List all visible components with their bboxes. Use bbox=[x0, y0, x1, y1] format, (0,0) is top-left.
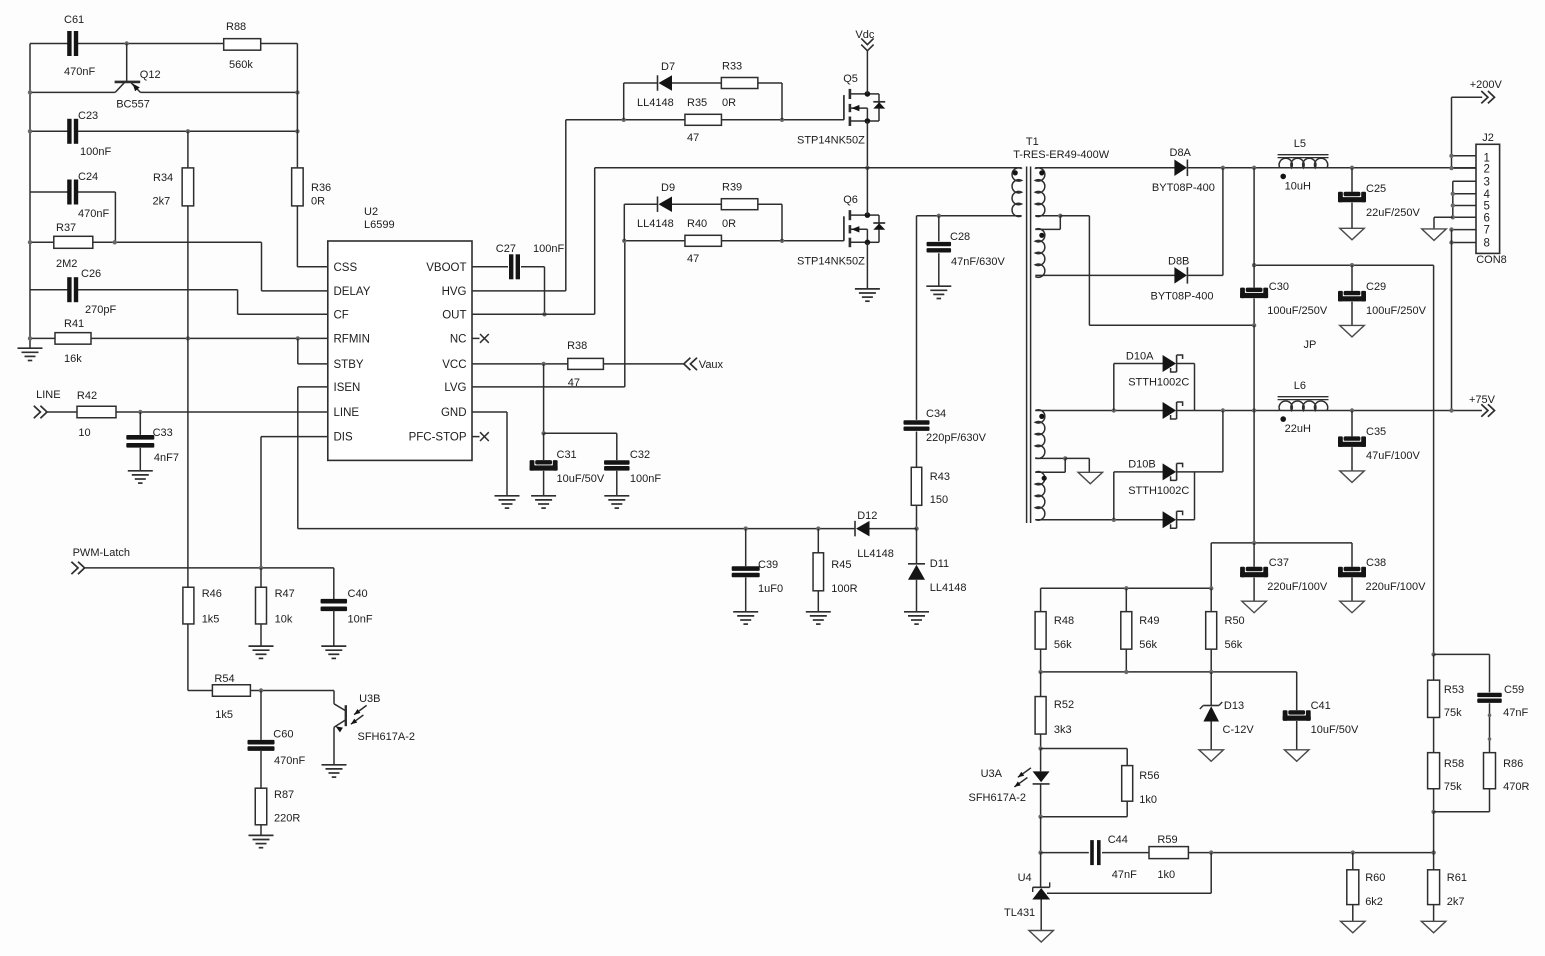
svg-text:Vaux: Vaux bbox=[699, 359, 724, 371]
svg-text:C33: C33 bbox=[153, 427, 173, 439]
resistor R60 6k2 bbox=[1352, 853, 1354, 870]
wire R34 vertical chain bbox=[187, 131, 189, 168]
wire Q6 gate line y240.8 bbox=[625, 240, 685, 242]
wire centre tap lower to ground bbox=[1065, 457, 1089, 459]
svg-text:VBOOT: VBOOT bbox=[426, 262, 466, 274]
ground C37 triangle bbox=[1242, 601, 1267, 613]
svg-text:U4: U4 bbox=[1018, 872, 1032, 884]
ground R47 bbox=[249, 645, 274, 647]
ground D11 bbox=[904, 611, 929, 613]
pin PFC-STOP stub with X bbox=[472, 436, 480, 438]
svg-text:10uF/50V: 10uF/50V bbox=[557, 473, 605, 485]
ground R45 bbox=[806, 611, 831, 613]
ground centre tap triangle bbox=[1078, 472, 1103, 484]
wire ISEN sense line y528.6 bbox=[298, 528, 746, 530]
resistor R56 1k0 bbox=[1041, 748, 1128, 750]
node y131 mid R34 bbox=[186, 129, 190, 133]
svg-text:C40: C40 bbox=[348, 588, 368, 600]
svg-text:VCC: VCC bbox=[442, 359, 466, 371]
resistor R38 bbox=[568, 358, 604, 369]
capacitor C26 bbox=[67, 277, 71, 302]
svg-text:0R: 0R bbox=[722, 97, 736, 109]
capacitor C23 bbox=[67, 119, 71, 144]
svg-text:R34: R34 bbox=[153, 172, 173, 184]
svg-text:R36: R36 bbox=[311, 182, 331, 194]
wire C37 rail y542.9 bbox=[1211, 542, 1352, 544]
node J2 pin6 bbox=[1451, 215, 1455, 219]
svg-text:STP14NK50Z: STP14NK50Z bbox=[797, 135, 865, 147]
svg-text:C-12V: C-12V bbox=[1223, 724, 1255, 736]
capacitor C40 10nF bbox=[321, 599, 348, 604]
resistor R42 bbox=[77, 406, 116, 418]
wire C41 branch bbox=[1296, 672, 1298, 710]
wire STBY branch bbox=[297, 338, 299, 364]
node D10A anode bbox=[1112, 408, 1116, 412]
capacitor C38 220uF/100V bbox=[1351, 543, 1353, 567]
svg-text:C32: C32 bbox=[630, 449, 650, 461]
svg-text:100R: 100R bbox=[831, 583, 857, 595]
svg-text:TL431: TL431 bbox=[1004, 907, 1035, 919]
svg-text:T1: T1 bbox=[1026, 136, 1039, 148]
capacitor C44 47nF bbox=[1041, 852, 1089, 854]
svg-text:Q12: Q12 bbox=[140, 69, 161, 81]
ground C31 bbox=[531, 495, 556, 497]
svg-text:75k: 75k bbox=[1444, 707, 1462, 719]
svg-text:47nF/630V: 47nF/630V bbox=[951, 256, 1005, 268]
svg-text:470R: 470R bbox=[1503, 781, 1529, 793]
node C33 junction bbox=[138, 410, 142, 414]
svg-text:C23: C23 bbox=[78, 110, 98, 122]
svg-text:4: 4 bbox=[1484, 189, 1491, 201]
svg-text:150: 150 bbox=[930, 494, 948, 506]
wire C24 rail y192 bbox=[30, 191, 68, 193]
svg-text:J2: J2 bbox=[1482, 132, 1494, 144]
svg-text:LINE: LINE bbox=[36, 389, 60, 401]
svg-text:56k: 56k bbox=[1139, 639, 1157, 651]
resistor R46 1k5 bbox=[183, 587, 194, 624]
svg-text:DELAY: DELAY bbox=[334, 286, 371, 298]
svg-text:C31: C31 bbox=[557, 449, 577, 461]
svg-text:47nF: 47nF bbox=[1112, 869, 1137, 881]
svg-text:NC: NC bbox=[450, 333, 467, 345]
resistor R48 56k bbox=[1040, 588, 1042, 612]
node R58/R86 bottom bbox=[1431, 810, 1435, 814]
svg-text:R40: R40 bbox=[687, 218, 707, 230]
svg-text:L5: L5 bbox=[1294, 138, 1306, 150]
capacitor C33 bbox=[139, 412, 141, 435]
svg-text:6: 6 bbox=[1484, 212, 1490, 224]
node y338 STBY branch bbox=[296, 336, 300, 340]
resistor R54 1k5 bbox=[188, 690, 213, 692]
wire sec4 bottom to D10B bbox=[1035, 519, 1163, 521]
wire D8A to output rail bbox=[1187, 167, 1279, 169]
wire sec3 bottom centre tap bbox=[1035, 457, 1065, 459]
node R52/U3A bbox=[1038, 746, 1042, 750]
svg-text:220uF/100V: 220uF/100V bbox=[1267, 581, 1328, 593]
node y338 R34 bbox=[186, 336, 190, 340]
svg-text:C60: C60 bbox=[273, 729, 293, 741]
node y338 left bbox=[28, 336, 32, 340]
svg-text:D8A: D8A bbox=[1170, 147, 1192, 159]
svg-text:U3B: U3B bbox=[359, 693, 380, 705]
svg-text:R46: R46 bbox=[202, 588, 222, 600]
transformer T1 core bbox=[1026, 167, 1028, 524]
svg-text:C38: C38 bbox=[1366, 557, 1386, 569]
svg-text:470nF: 470nF bbox=[274, 755, 305, 767]
svg-text:8: 8 bbox=[1484, 238, 1490, 250]
node y242 left bbox=[28, 240, 32, 244]
resistor R35 bbox=[685, 114, 722, 125]
ground C35 triangle bbox=[1340, 471, 1365, 483]
resistor R37 bbox=[54, 236, 93, 248]
resistor R61 2k7 bbox=[1433, 853, 1435, 870]
diode D9 LL4148 bbox=[657, 196, 659, 212]
svg-text:C34: C34 bbox=[926, 408, 946, 420]
svg-text:Q6: Q6 bbox=[843, 194, 858, 206]
resistor R36 bbox=[292, 168, 304, 206]
svg-text:L6: L6 bbox=[1294, 380, 1306, 392]
wire VCC branch down to C31/C32 bbox=[543, 364, 545, 433]
svg-text:L6599: L6599 bbox=[364, 219, 395, 231]
node R48/R52 bbox=[1038, 670, 1042, 674]
svg-text:R41: R41 bbox=[64, 318, 84, 330]
wire C34 vertical bbox=[916, 216, 918, 420]
svg-text:220R: 220R bbox=[274, 813, 300, 825]
svg-text:CON8: CON8 bbox=[1476, 254, 1507, 266]
diode D12 LL4148 bbox=[854, 521, 856, 537]
svg-text:BYT08P-400: BYT08P-400 bbox=[1151, 291, 1214, 303]
wire J2 pin8 stub bbox=[1452, 242, 1477, 244]
svg-text:D9: D9 bbox=[661, 182, 675, 194]
node J2 pin4 bbox=[1451, 192, 1455, 196]
svg-text:LL4148: LL4148 bbox=[857, 548, 894, 560]
wire sec1 top to D8A bbox=[1035, 167, 1175, 169]
wire R36 vertical / CSS bbox=[296, 44, 298, 169]
wire LINE input bbox=[47, 411, 77, 413]
node y92 left bbox=[28, 90, 32, 94]
node Q6 gate line right bbox=[780, 239, 784, 243]
svg-text:R49: R49 bbox=[1139, 615, 1159, 627]
node +75V left bbox=[1252, 408, 1256, 412]
diode D11 LL4148 bbox=[916, 529, 918, 564]
svg-text:R52: R52 bbox=[1054, 699, 1074, 711]
svg-text:10uH: 10uH bbox=[1285, 181, 1311, 193]
resistor R34 bbox=[182, 168, 194, 206]
wire half-bridge rail y167.8 bbox=[595, 167, 1022, 169]
svg-text:2k7: 2k7 bbox=[1447, 896, 1465, 908]
wire C23 rail y131 bbox=[30, 130, 68, 132]
ground C28 bbox=[926, 285, 951, 287]
svg-text:STTH1002C: STTH1002C bbox=[1128, 377, 1189, 389]
pin NC stub with X bbox=[472, 337, 480, 339]
svg-text:R37: R37 bbox=[56, 222, 76, 234]
capacitor C34 bbox=[904, 420, 930, 424]
wire D8B cathode up to rail bbox=[1187, 274, 1223, 276]
diode D10A STTH1002C (upper device) bbox=[1113, 364, 1115, 411]
resistor R52 3k3 bbox=[1040, 672, 1042, 697]
wire R41 rail y338 RFMIN bbox=[30, 337, 55, 339]
svg-text:R58: R58 bbox=[1444, 758, 1464, 770]
svg-text:16k: 16k bbox=[64, 353, 82, 365]
net +200V arrow bbox=[1452, 96, 1483, 98]
svg-text:R39: R39 bbox=[722, 182, 742, 194]
svg-text:22uH: 22uH bbox=[1285, 423, 1311, 435]
svg-text:100nF: 100nF bbox=[533, 243, 564, 255]
connector J2 CON8 box bbox=[1476, 144, 1500, 253]
wire C31 rail bbox=[544, 432, 617, 434]
svg-text:2M2: 2M2 bbox=[56, 258, 77, 270]
node D10B anode bbox=[1112, 518, 1116, 522]
wire Q6 drain from midpoint bbox=[866, 168, 868, 215]
node R43/D11/D12 bbox=[914, 526, 918, 530]
wire D10A output bbox=[1177, 410, 1255, 412]
svg-text:47uF/100V: 47uF/100V bbox=[1366, 450, 1420, 462]
svg-text:GND: GND bbox=[441, 407, 467, 419]
svg-text:LINE: LINE bbox=[334, 407, 360, 419]
node gate line right bbox=[780, 118, 784, 122]
capacitor C37 220uF/100V bbox=[1253, 543, 1255, 567]
wire J2 pin1 stub bbox=[1452, 155, 1477, 157]
wire sec1 bottom / centre tap bbox=[1035, 215, 1060, 217]
svg-text:JP: JP bbox=[1304, 339, 1317, 351]
wire D7 branch bbox=[623, 83, 625, 120]
capacitor C27 bbox=[509, 254, 513, 279]
resistor R86 470R bbox=[1484, 753, 1496, 789]
node R50/D13 bbox=[1209, 670, 1213, 674]
diode D8A BYT08P-400 bbox=[1186, 160, 1188, 177]
node D10 cathode rail bbox=[1221, 408, 1225, 412]
svg-text:100uF/250V: 100uF/250V bbox=[1366, 305, 1427, 317]
svg-text:1k5: 1k5 bbox=[202, 614, 220, 626]
resistor R58 75k bbox=[1428, 753, 1440, 789]
svg-text:220uF/100V: 220uF/100V bbox=[1366, 581, 1427, 593]
svg-text:SFH617A-2: SFH617A-2 bbox=[969, 792, 1026, 804]
opto U3B SFH617A-2 phototransistor bbox=[333, 691, 335, 704]
inductor T1 secondary winding 3 bbox=[1035, 410, 1045, 459]
svg-text:2: 2 bbox=[1484, 163, 1490, 175]
wire fb node down bbox=[1433, 812, 1435, 853]
svg-text:CSS: CSS bbox=[334, 262, 358, 274]
svg-text:Q5: Q5 bbox=[843, 73, 858, 85]
svg-text:10k: 10k bbox=[275, 614, 293, 626]
svg-text:SFH617A-2: SFH617A-2 bbox=[358, 731, 415, 743]
inductor T1 primary winding bbox=[1012, 168, 1022, 217]
svg-text:D8B: D8B bbox=[1168, 256, 1189, 268]
node TL431 cathode bbox=[1038, 850, 1042, 854]
svg-text:C37: C37 bbox=[1269, 557, 1289, 569]
svg-text:R60: R60 bbox=[1365, 872, 1385, 884]
svg-text:10: 10 bbox=[78, 427, 90, 439]
wire R37 rail y242 to DELAY bbox=[30, 241, 54, 243]
svg-text:D10A: D10A bbox=[1126, 351, 1154, 363]
ground D13 triangle bbox=[1199, 750, 1224, 762]
svg-text:C35: C35 bbox=[1366, 426, 1386, 438]
diode D10A STTH1002C (lower device) bbox=[1176, 402, 1178, 419]
wire primary bottom to C34 branch bbox=[917, 215, 1022, 217]
svg-text:5: 5 bbox=[1484, 201, 1490, 213]
wire divider top rail y588.3 bbox=[1041, 587, 1212, 589]
ground left rail bbox=[18, 347, 43, 349]
wire C40 branch corner bbox=[333, 568, 335, 600]
svg-text:C41: C41 bbox=[1311, 700, 1331, 712]
svg-text:C61: C61 bbox=[64, 14, 84, 26]
wire R53-R58 link bbox=[1433, 717, 1435, 752]
node R61 top bbox=[1431, 850, 1435, 854]
svg-text:C30: C30 bbox=[1269, 281, 1289, 293]
svg-text:LVG: LVG bbox=[444, 382, 466, 394]
diode D10B STTH1002C (upper device) bbox=[1113, 472, 1115, 520]
ground C25 triangle bbox=[1340, 228, 1365, 240]
node C37 rail bbox=[1252, 541, 1256, 545]
wire D9 branch bbox=[623, 204, 625, 241]
node Q6 source bbox=[865, 240, 871, 246]
svg-text:U3A: U3A bbox=[981, 768, 1003, 780]
wire VCC to R38 bbox=[472, 363, 568, 365]
svg-text:R61: R61 bbox=[1447, 872, 1467, 884]
svg-text:STP14NK50Z: STP14NK50Z bbox=[797, 256, 865, 268]
svg-text:0R: 0R bbox=[311, 196, 325, 208]
wire +75V rail y410.5 bbox=[1254, 410, 1280, 412]
ground C38 triangle bbox=[1340, 601, 1365, 613]
wire R59 to feedback rail bbox=[1188, 852, 1433, 854]
resistor R49 56k bbox=[1125, 588, 1127, 612]
resistor R47 10k bbox=[260, 568, 262, 587]
ground C29 triangle bbox=[1340, 325, 1365, 337]
svg-text:BYT08P-400: BYT08P-400 bbox=[1152, 182, 1215, 194]
svg-text:R59: R59 bbox=[1157, 834, 1177, 846]
svg-text:3: 3 bbox=[1484, 176, 1490, 188]
diode D8B BYT08P-400 bbox=[1186, 267, 1188, 284]
capacitor C39 bbox=[745, 529, 747, 567]
svg-text:C24: C24 bbox=[78, 171, 98, 183]
node J2 branch bbox=[1449, 408, 1453, 412]
svg-text:R56: R56 bbox=[1139, 770, 1159, 782]
node C35 bbox=[1350, 408, 1354, 412]
svg-text:STTH1002C: STTH1002C bbox=[1128, 485, 1189, 497]
resistor R41 bbox=[55, 333, 91, 345]
resistor R43 bbox=[911, 467, 922, 505]
node J2 pin1 bbox=[1449, 154, 1453, 158]
svg-text:D13: D13 bbox=[1224, 700, 1244, 712]
wire Vdc to Q5 drain bbox=[866, 51, 868, 94]
svg-text:560k: 560k bbox=[229, 59, 253, 71]
wire C27 to OUT node bbox=[521, 266, 545, 268]
svg-text:100nF: 100nF bbox=[630, 473, 661, 485]
svg-text:D7: D7 bbox=[661, 61, 675, 73]
svg-text:100uF/250V: 100uF/250V bbox=[1267, 305, 1328, 317]
ground C41 triangle bbox=[1284, 750, 1309, 762]
ground TL431 triangle bbox=[1029, 931, 1054, 943]
node Q6 gate line left bbox=[622, 239, 626, 243]
node VCC branch bbox=[541, 362, 545, 366]
node C30/C29 rail left bbox=[1252, 263, 1256, 267]
inductor L5 10uH bbox=[1278, 154, 1329, 156]
svg-text:100nF: 100nF bbox=[80, 146, 111, 158]
wire J2 pins7-8 down to +75V bbox=[1451, 230, 1453, 411]
wire J2 pin2 stub bbox=[1452, 167, 1477, 169]
wire TL431 ref bbox=[1210, 853, 1212, 894]
resistor R40 bbox=[685, 235, 722, 246]
wire LED cathode down bbox=[1040, 817, 1042, 853]
capacitor C41 10uF/50V bbox=[1288, 710, 1305, 714]
wire OUT to half-bridge bbox=[472, 313, 595, 315]
transistor Q12 BC557 bbox=[126, 44, 128, 82]
inductor T1 secondary winding 4 bbox=[1035, 472, 1045, 521]
wire centre tap return upper bbox=[1060, 215, 1089, 217]
capacitor C28 bbox=[938, 216, 940, 242]
capacitor C25 22uF/250V bbox=[1351, 168, 1353, 192]
svg-text:1k0: 1k0 bbox=[1139, 794, 1157, 806]
node fb/R50 branch bbox=[1209, 850, 1213, 854]
resistor R50 56k bbox=[1210, 588, 1212, 612]
node junction top rail / Q12 base bbox=[125, 41, 129, 45]
node J2 pin2 bbox=[1449, 166, 1453, 170]
wire PWM-Latch rail y567.9 bbox=[85, 567, 334, 569]
op-amp U2 L6599 box bbox=[328, 241, 472, 460]
node sec centre tap upper bbox=[1058, 214, 1062, 218]
ground GND pin bbox=[495, 495, 520, 497]
node R60 top bbox=[1351, 850, 1355, 854]
svg-text:3k3: 3k3 bbox=[1054, 724, 1072, 736]
svg-text:R50: R50 bbox=[1225, 615, 1245, 627]
wire ISEN branch bbox=[298, 386, 328, 388]
resistor R33 bbox=[721, 78, 758, 89]
node half-bridge midpoint bbox=[865, 166, 869, 170]
svg-text:D12: D12 bbox=[857, 510, 877, 522]
svg-text:PWM-Latch: PWM-Latch bbox=[73, 547, 130, 559]
inductor T1 secondary winding 2 bbox=[1035, 229, 1045, 278]
ground U3B bbox=[322, 764, 347, 766]
node R86 top lead bbox=[1488, 737, 1492, 741]
node C59 bottom bbox=[1488, 714, 1492, 718]
wire mid rail y671.9 bbox=[1041, 671, 1297, 673]
svg-text:56k: 56k bbox=[1225, 639, 1243, 651]
wire J2 pin7 stub bbox=[1452, 229, 1477, 231]
svg-text:1uF0: 1uF0 bbox=[758, 583, 783, 595]
svg-text:OUT: OUT bbox=[442, 309, 466, 321]
node C30 bottom bbox=[1252, 323, 1256, 327]
wire left vertical rail x30 bbox=[29, 44, 31, 348]
svg-text:R38: R38 bbox=[567, 340, 587, 352]
node R53 top bbox=[1431, 652, 1435, 656]
svg-text:47nF: 47nF bbox=[1503, 707, 1528, 719]
svg-text:1k5: 1k5 bbox=[215, 709, 233, 721]
node C27/OUT bbox=[542, 312, 546, 316]
svg-text:C28: C28 bbox=[950, 231, 970, 243]
wire J2 bus to ground bbox=[1434, 216, 1453, 218]
svg-text:4nF7: 4nF7 bbox=[154, 452, 179, 464]
capacitor C61 bbox=[67, 31, 71, 56]
wire J2 pins3-6 bus bbox=[1453, 180, 1476, 182]
net +75V arrow bbox=[1481, 404, 1488, 416]
ground C33 bbox=[128, 470, 153, 472]
inductor T1 secondary winding 1 bbox=[1035, 168, 1045, 217]
ground R87 bbox=[249, 834, 274, 836]
node R47 top bbox=[259, 566, 263, 570]
svg-text:6k2: 6k2 bbox=[1365, 896, 1383, 908]
svg-text:C26: C26 bbox=[81, 268, 101, 280]
svg-text:R47: R47 bbox=[275, 588, 295, 600]
svg-text:RFMIN: RFMIN bbox=[334, 333, 370, 345]
capacitor C31 bbox=[543, 433, 545, 460]
capacitor C29 100uF/250V bbox=[1351, 265, 1353, 291]
node Q5 source bbox=[865, 118, 871, 124]
svg-text:R48: R48 bbox=[1054, 615, 1074, 627]
wire Q5 source to midpoint bbox=[866, 121, 868, 168]
wire emitter rail y92 bbox=[30, 91, 115, 93]
svg-text:+75V: +75V bbox=[1469, 394, 1496, 406]
svg-text:R87: R87 bbox=[274, 789, 294, 801]
